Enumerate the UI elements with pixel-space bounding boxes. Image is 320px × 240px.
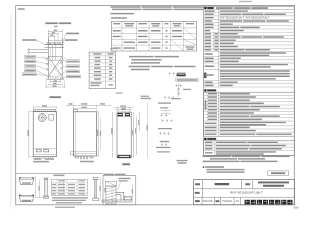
optional parts table texts bbox=[205, 93, 292, 135]
text right of detail box bbox=[177, 160, 188, 164]
pipe through wall bbox=[116, 192, 124, 200]
note line 1 bbox=[111, 6, 204, 8]
side view top dimension lines bbox=[67, 103, 110, 112]
notes under spec table bbox=[203, 156, 290, 163]
piping diagram top dimension lines bbox=[48, 30, 62, 45]
wall anchor head box bbox=[106, 181, 117, 186]
lower port stubs bbox=[47, 77, 65, 80]
boxed label ふろ往接続口 left3 bbox=[25, 65, 36, 68]
spec section title 別売品 bbox=[204, 89, 216, 91]
mid notes line 5 bbox=[131, 69, 150, 71]
spec table rows bbox=[204, 13, 295, 87]
side view lower-left attachment bbox=[70, 152, 73, 155]
front view lower panel lines bbox=[33, 149, 56, 155]
rear view bottom mounting bar bbox=[118, 155, 131, 158]
tall bracket detail bbox=[93, 177, 101, 200]
svg-text:RUF-SE1615SAT(A)-T RUF-SE2015: RUF-SE1615SAT(A)-T RUF-SE2015SAT(A)-T bbox=[220, 17, 270, 20]
bottom strip divider line bbox=[16, 172, 103, 174]
footer tiny text bbox=[55, 207, 299, 209]
optional parts table bbox=[204, 92, 295, 136]
front view bottom pipe stubs bbox=[36, 157, 52, 159]
wall section hatching bbox=[106, 186, 116, 204]
piping diagram title 上下プラグの通水図 bbox=[45, 22, 71, 27]
hanging bracket boxed label bbox=[176, 78, 199, 81]
rear view right dimensions bbox=[132, 112, 139, 158]
rear view top dimensions bbox=[114, 106, 134, 113]
spec table row texts bbox=[205, 10, 290, 86]
note line 3 bbox=[111, 13, 135, 15]
boxed label ふろ接続口 right4 bbox=[66, 75, 81, 78]
leader lines to right boxed labels bbox=[56, 61, 66, 80]
spec table outer frame bbox=[204, 6, 295, 155]
label 給湯接続口 right bbox=[60, 39, 78, 47]
packing table bbox=[204, 141, 295, 156]
dimension table header text bbox=[113, 23, 194, 27]
hanging bracket figure crosses bbox=[169, 72, 176, 75]
side view bottom feet and pipes bbox=[75, 156, 93, 159]
label 入水接続口 right bbox=[62, 33, 79, 44]
rear view top mounting brackets bbox=[118, 113, 130, 117]
side view right dimension lines bbox=[96, 112, 101, 156]
pipe fixing bracket right bbox=[124, 196, 131, 200]
label 通水図記号 bbox=[50, 96, 62, 98]
connection size table text bbox=[91, 53, 114, 86]
title block model number bbox=[195, 191, 263, 195]
tray dimension chain bbox=[35, 177, 44, 198]
title block row3 dividers bbox=[202, 197, 241, 205]
anchor symbol group 3 bbox=[161, 119, 172, 122]
detail box annotations bbox=[104, 178, 130, 193]
mid notes line 3 bbox=[131, 62, 160, 64]
svg-text:2024.09: 2024.09 bbox=[203, 199, 213, 203]
bracket parts table caption bbox=[53, 175, 64, 177]
boxed label ガス接続口 right3 bbox=[66, 70, 79, 73]
dimension table diagonal slashes bbox=[171, 28, 196, 50]
wall mount detail caption bbox=[104, 174, 126, 176]
label 背面図 bbox=[122, 163, 130, 165]
corner note 参考図 bbox=[18, 8, 25, 10]
front view bottom dimension text bbox=[33, 158, 54, 162]
boxed label 給湯接続口 left2 bbox=[25, 60, 36, 63]
boxed label 入水接続口 right1 bbox=[66, 60, 79, 63]
svg-text:A3: A3 bbox=[236, 199, 240, 203]
boxed label ドレン接続口 left5 bbox=[22, 73, 36, 76]
dimension table grid bbox=[112, 21, 197, 51]
title block row3 texts bbox=[195, 199, 239, 203]
spec table label column divider bbox=[218, 10, 220, 88]
piping diagram bottom dimension lines bbox=[46, 80, 64, 88]
side view bottom label bbox=[80, 161, 94, 163]
hanging bracket lower symbols bbox=[171, 83, 191, 99]
anchor symbol group 4 bbox=[158, 128, 172, 142]
front view top dimension bbox=[33, 105, 56, 109]
dimension table caption bbox=[111, 17, 127, 19]
packing table texts bbox=[205, 142, 286, 155]
heat exchanger column with X-cross bbox=[44, 38, 66, 80]
anchor symbol group 1 bbox=[158, 96, 174, 104]
manifold left arms with port circles bbox=[28, 49, 49, 54]
title block row2 divider bbox=[201, 189, 203, 197]
hanging bracket dark bar bbox=[177, 73, 186, 77]
spec section title 梱包 bbox=[204, 138, 216, 140]
rear view left dimension bbox=[111, 112, 112, 158]
anchor symbol group 5 bbox=[156, 143, 171, 152]
title block frame bbox=[194, 180, 295, 205]
管理区分内 box bbox=[268, 171, 289, 176]
title block row1 dividers bbox=[202, 180, 252, 189]
rear view body bbox=[117, 112, 131, 158]
side view body bbox=[73, 112, 96, 156]
spec table dark group cell bbox=[204, 73, 207, 78]
anchor symbol group 2 bbox=[160, 107, 171, 117]
bracket notes below table bbox=[52, 197, 88, 203]
front view fan circle bbox=[38, 114, 46, 122]
company name リンナイ株式会社 bbox=[245, 200, 293, 205]
svg-text:7/10(A4): 7/10(A4) bbox=[222, 199, 232, 203]
spec section title 仕様 bbox=[204, 7, 295, 10]
detail baseplate bbox=[102, 200, 132, 202]
front view control box bbox=[49, 114, 54, 120]
scan fold artifact line bbox=[10, 14, 12, 209]
leader lines to left boxed labels bbox=[36, 57, 57, 77]
connection size table unit note bbox=[110, 48, 123, 94]
boxed label 給水接続口 left1 bbox=[25, 56, 36, 59]
small bracket side view bbox=[38, 178, 48, 198]
front view body bbox=[33, 111, 56, 156]
side view top bracket bbox=[73, 110, 77, 112]
connection size table bbox=[89, 52, 116, 89]
wall mount detail box bbox=[103, 175, 136, 204]
bracket parts table bbox=[51, 179, 87, 195]
front view top grille band bbox=[34, 109, 56, 111]
bullet list 対応リモコン bbox=[203, 166, 245, 173]
svg-text:RUF-SE1615SAT-L(B)-T: RUF-SE1615SAT-L(B)-T bbox=[230, 191, 263, 195]
mounting tray B bbox=[19, 195, 34, 202]
mid notes line 2 bbox=[132, 59, 162, 61]
page header faint remnant bbox=[239, 1, 252, 3]
front view left dimension bbox=[28, 111, 34, 156]
mounting tray A bbox=[19, 177, 34, 184]
mid notes line 4 bbox=[129, 66, 196, 68]
rear dim extension line bbox=[141, 96, 152, 158]
page border frame bbox=[16, 5, 295, 204]
title block row1 texts bbox=[195, 182, 289, 187]
spec table sub-label dividers bbox=[213, 32, 215, 51]
detail right dimension bbox=[132, 185, 133, 200]
plug valve symbols row bbox=[45, 42, 65, 48]
boxed label ふろ戻接続口 left4 bbox=[25, 69, 36, 72]
boxed label 給湯接続口 right2 bbox=[66, 65, 79, 68]
dimension table cells text bbox=[113, 30, 195, 50]
label ポンプ循環金具 left bbox=[22, 39, 46, 45]
mid notes line 1 bbox=[129, 56, 179, 58]
bracket parts table text bbox=[52, 180, 85, 194]
note line 2 bbox=[112, 9, 203, 11]
